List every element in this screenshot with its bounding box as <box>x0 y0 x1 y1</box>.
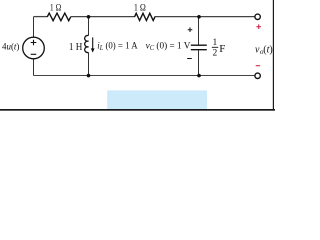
svg-text:F: F <box>219 43 225 55</box>
svg-text:(t): (t) <box>263 45 272 56</box>
svg-text:4u(t): 4u(t) <box>2 41 19 51</box>
svg-text:1 Ω: 1 Ω <box>134 3 146 13</box>
svg-text:iL (0) = 1 A: iL (0) = 1 A <box>97 41 137 53</box>
svg-text:vC (0) = 1 V: vC (0) = 1 V <box>146 41 191 53</box>
svg-text:1 H: 1 H <box>69 42 83 53</box>
svg-text:1: 1 <box>213 38 218 48</box>
svg-text:1 Ω: 1 Ω <box>50 2 62 12</box>
svg-text:2: 2 <box>213 49 218 59</box>
